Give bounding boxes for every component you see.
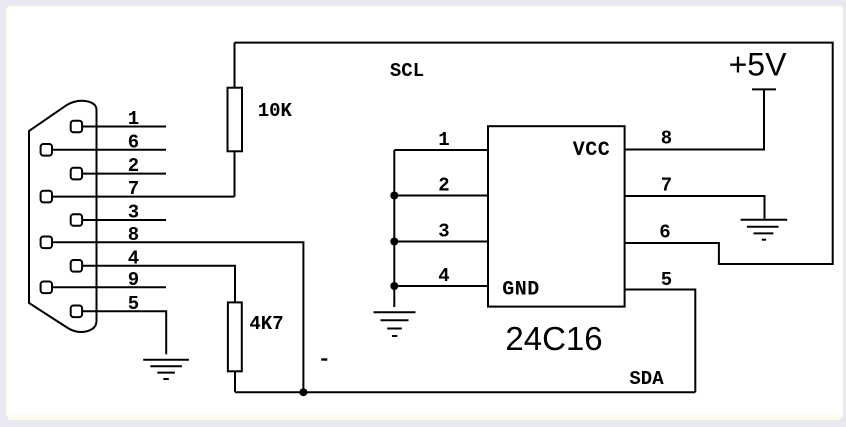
wire U1 pin 2 <box>394 195 488 197</box>
wire U1 pin 8 to +5V <box>625 89 764 149</box>
pin circle J1-9 <box>41 282 52 294</box>
wire U1 pin 7 to ground <box>625 196 765 219</box>
svg-text:4: 4 <box>128 247 139 269</box>
wire J1 pin 3 stub <box>83 219 167 221</box>
junction dot bus pin 3 <box>390 238 398 246</box>
resistor R1 10K body <box>228 88 243 152</box>
wire J1 pin 9 stub <box>52 286 166 288</box>
svg-text:VCC: VCC <box>573 139 611 162</box>
svg-text:5: 5 <box>128 293 139 315</box>
pin circle J1-3 <box>71 214 82 226</box>
wire R1 bottom to pin 7 <box>234 151 236 196</box>
svg-text:5: 5 <box>661 269 672 291</box>
svg-text:+5V: +5V <box>729 47 787 83</box>
svg-text:6: 6 <box>659 222 670 244</box>
svg-text:10K: 10K <box>258 100 293 122</box>
svg-text:SCL: SCL <box>390 60 424 82</box>
svg-text:3: 3 <box>128 202 139 224</box>
svg-text:6: 6 <box>128 131 139 153</box>
svg-text:2: 2 <box>438 175 449 197</box>
resistor R2 4K7 body <box>228 302 242 371</box>
svg-text:4: 4 <box>438 265 449 287</box>
junction dot bus pin 2 <box>390 192 398 200</box>
junction dot SDA <box>299 388 307 396</box>
svg-text:8: 8 <box>128 224 139 246</box>
power symbol +5V bar <box>752 88 776 90</box>
pin circle J1-5 <box>71 306 82 318</box>
wire J1 pin 5 to ground <box>83 311 167 354</box>
svg-text:9: 9 <box>128 269 139 291</box>
pin circle J1-2 <box>71 168 82 180</box>
wire left bus to ground <box>393 150 395 307</box>
svg-text:GND: GND <box>502 279 540 302</box>
svg-text:2: 2 <box>128 155 139 177</box>
svg-text:1: 1 <box>438 129 449 151</box>
ground symbol right of U1 <box>741 220 788 240</box>
svg-text:1: 1 <box>128 108 139 130</box>
wire U1 pin 5 to SDA line <box>625 290 696 393</box>
wire J1 pin 7 to resistor R1 <box>52 196 235 198</box>
stray dash mark <box>321 358 327 360</box>
pin circle J1-7 <box>41 191 52 203</box>
wire U1 pin 1 <box>394 149 488 151</box>
pin circle J1-1 <box>71 121 82 133</box>
wire J1 pin 4 to resistor R2 <box>83 266 236 303</box>
wire R2 bottom to SDA line <box>234 371 236 392</box>
svg-text:8: 8 <box>661 128 672 150</box>
junction dot bus pin 4 <box>390 282 398 290</box>
wire J1 pin 6 stub <box>52 149 166 151</box>
svg-text:4K7: 4K7 <box>249 313 283 335</box>
wire J1 pin 2 stub <box>83 173 167 175</box>
pin circle J1-4 <box>71 260 82 272</box>
wire SDA bottom line <box>235 391 695 393</box>
svg-text:24C16: 24C16 <box>505 320 602 357</box>
wire R1 top to SCL rail <box>234 43 236 88</box>
svg-text:7: 7 <box>128 178 139 200</box>
pin circle J1-6 <box>41 144 52 156</box>
svg-text:3: 3 <box>438 221 449 243</box>
wire J1 pin 1 stub <box>83 126 167 128</box>
svg-text:7: 7 <box>661 175 672 197</box>
svg-text:SDA: SDA <box>629 368 664 390</box>
wire U1 pin 4 <box>394 285 488 287</box>
ground symbol below left bus <box>374 312 416 336</box>
wire SCL rail from R1 across top and down to U1 pin 6 <box>235 43 833 264</box>
op-amp U1 24C16 body <box>488 126 625 306</box>
wire U1 pin 3 <box>394 241 488 243</box>
connector J1 DB9 outline <box>29 101 97 332</box>
ground symbol below J1 pin 5 <box>143 360 189 379</box>
wire J1 pin 8 to SDA junction <box>52 242 303 392</box>
pin circle J1-8 <box>41 237 52 249</box>
